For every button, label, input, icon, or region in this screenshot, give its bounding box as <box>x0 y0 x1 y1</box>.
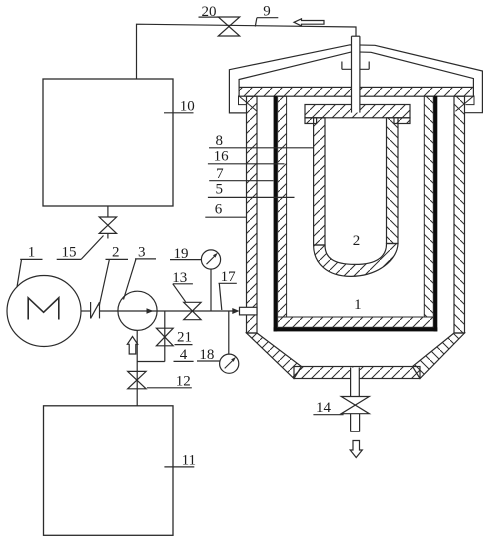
crucible flange <box>305 105 410 118</box>
drain pipe <box>351 368 360 397</box>
gauge 19 <box>201 250 220 311</box>
valve 21 <box>156 328 173 346</box>
drain stub <box>351 414 360 432</box>
svg-text:14: 14 <box>316 400 332 416</box>
pipe into vessel <box>352 36 360 112</box>
svg-text:16: 16 <box>214 149 230 165</box>
liner right <box>424 96 433 317</box>
vessel lid outer shell <box>229 45 482 113</box>
label 1 <box>17 244 43 287</box>
label 5 <box>208 182 295 198</box>
svg-text:3: 3 <box>138 244 146 260</box>
label 20 <box>199 4 220 20</box>
vessel wall right <box>454 96 465 333</box>
heater 7 bottom <box>274 327 438 331</box>
chamber floor <box>278 317 434 327</box>
label 16 <box>208 149 285 165</box>
svg-text:6: 6 <box>215 202 223 218</box>
inlet stub <box>240 307 258 315</box>
flow arrow 9 <box>294 19 324 26</box>
wire pump inlet <box>136 330 138 405</box>
wire bypass 4 <box>137 361 165 363</box>
flow arrow inlet <box>127 337 137 355</box>
taper left <box>247 333 302 379</box>
svg-text:8: 8 <box>215 133 223 149</box>
label 7 <box>209 166 273 182</box>
coupling 2 <box>81 302 100 318</box>
svg-text:5: 5 <box>215 182 223 198</box>
tank 11 <box>44 406 174 536</box>
label 4 <box>174 347 194 363</box>
crucible flange tab left <box>305 118 317 124</box>
lid corner step right <box>455 96 474 112</box>
crucible flange tab right <box>394 118 410 124</box>
svg-text:15: 15 <box>62 244 77 260</box>
label 14 <box>313 400 343 416</box>
svg-text:2: 2 <box>112 244 120 260</box>
svg-text:10: 10 <box>180 98 195 114</box>
svg-text:7: 7 <box>216 166 224 182</box>
crucible wall right <box>387 118 399 244</box>
svg-text:1: 1 <box>354 297 362 313</box>
valve 14 <box>341 397 369 414</box>
wire branch valve 21 <box>164 311 166 362</box>
label 10 <box>164 98 195 114</box>
heater 7 right <box>434 96 438 332</box>
label 17 <box>219 269 237 310</box>
motor 1 <box>7 276 81 347</box>
inlet arrowhead <box>232 308 239 314</box>
svg-text:2: 2 <box>353 233 361 249</box>
svg-text:11: 11 <box>182 452 196 468</box>
valve 12 <box>128 371 146 388</box>
svg-text:1: 1 <box>28 244 36 260</box>
label 15 <box>57 236 104 261</box>
label 3 <box>124 244 157 299</box>
vessel bottom band <box>294 367 420 379</box>
label 19 <box>170 246 201 262</box>
lid corner step left <box>239 96 258 112</box>
label 8 <box>209 133 314 149</box>
vessel wall 6 left <box>247 96 258 333</box>
gauge 18 <box>220 311 239 373</box>
crucible bottom <box>314 244 398 277</box>
valve 15 <box>99 206 116 239</box>
svg-text:12: 12 <box>176 373 191 389</box>
liner 16 left <box>278 96 287 317</box>
heater 7 left <box>274 96 278 332</box>
label 9 <box>255 4 278 27</box>
lid flange <box>239 87 473 96</box>
label 11 <box>164 452 196 468</box>
pump 3 <box>118 291 157 330</box>
label 18 <box>197 347 220 363</box>
svg-text:17: 17 <box>221 269 237 285</box>
flow arrow outlet <box>350 441 362 458</box>
tank 10 <box>43 79 173 206</box>
lid collar notch <box>342 62 369 70</box>
label 2 <box>99 244 128 306</box>
taper right <box>413 333 465 379</box>
wire pump outlet <box>100 310 233 312</box>
label 13 <box>172 270 193 302</box>
crucible wall left <box>314 118 325 245</box>
label 6 <box>205 202 246 218</box>
label 12 <box>147 373 192 389</box>
svg-text:21: 21 <box>177 330 192 346</box>
vessel lid inner line <box>239 52 473 88</box>
svg-text:4: 4 <box>180 347 188 363</box>
valve 20 <box>218 17 239 36</box>
valve 13 <box>184 302 201 319</box>
wire top pipe <box>137 24 357 79</box>
label 21 <box>175 330 193 346</box>
